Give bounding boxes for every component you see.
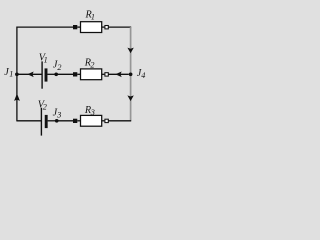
- battery V2: [38, 99, 47, 135]
- svg-text:4: 4: [141, 71, 145, 80]
- resistor R2: [73, 57, 108, 79]
- node J3: [55, 119, 59, 123]
- wire: right vertical gray (x=130.6 from top row to bottom row): [130, 27, 132, 121]
- svg-text:2: 2: [43, 103, 47, 112]
- arrow: down arrow on right vertical lower segment: [127, 95, 133, 101]
- wire: bottom row left corner to battery V2: [17, 120, 41, 122]
- svg-text:2: 2: [90, 60, 94, 69]
- battery V1: [39, 52, 48, 88]
- svg-text:1: 1: [44, 56, 48, 65]
- resistor R3: [73, 105, 108, 126]
- resistor R1: [73, 9, 108, 32]
- svg-text:2: 2: [57, 63, 61, 72]
- wire: battery V1 to J2: [47, 73, 56, 75]
- svg-text:1: 1: [9, 70, 13, 79]
- node J1: [15, 72, 19, 76]
- arrow: left arrow on middle row near V1: [27, 72, 33, 78]
- wire: J3 to R3: [57, 120, 73, 122]
- arrow: up arrow on left vertical: [14, 94, 20, 101]
- wire: middle row J1 to battery V1: [17, 73, 42, 75]
- arrow: left arrow on middle row near J4: [115, 72, 121, 78]
- wire: top row right segment: [108, 26, 131, 28]
- wire: battery V2 to J3: [48, 120, 57, 122]
- wire: left vertical (x=16.9 from top row through J1 to bottom row): [16, 27, 18, 122]
- wire: R2 to J4: [108, 73, 129, 75]
- node J2: [54, 72, 58, 76]
- svg-text:3: 3: [56, 110, 61, 119]
- wire: J2 to R2: [56, 73, 73, 75]
- wire: top row horizontal: [17, 26, 73, 28]
- svg-text:1: 1: [91, 12, 95, 21]
- arrow: down arrow on right vertical upper segment: [127, 48, 133, 54]
- wire: R3 to bottom right corner: [108, 120, 131, 122]
- node J4: [129, 72, 133, 76]
- svg-text:3: 3: [90, 108, 95, 117]
